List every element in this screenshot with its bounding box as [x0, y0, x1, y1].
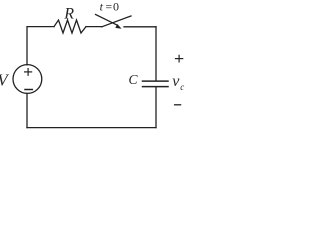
svg-text:V: V: [0, 70, 10, 89]
capacitor C bottom plate: [143, 86, 169, 88]
svg-text:c: c: [180, 82, 184, 92]
svg-text:v: v: [172, 73, 180, 90]
plus polarity mark of vC: [176, 55, 183, 62]
voltage source minus sign: [25, 89, 32, 91]
svg-text:0: 0: [113, 0, 119, 14]
svg-text:R: R: [63, 6, 74, 23]
wire resistor to switch: [86, 26, 102, 28]
svg-text:=: =: [105, 0, 112, 14]
switch arrowhead: [115, 24, 121, 29]
switch closing arrow line: [96, 15, 118, 26]
resistor R zigzag: [54, 20, 86, 33]
wire right vertical (corner to capacitor top plate): [155, 27, 157, 81]
capacitor C top plate: [143, 80, 169, 82]
minus polarity mark of vC: [175, 104, 181, 106]
wire capacitor bottom to bottom-right corner: [155, 87, 157, 127]
wire bottom: [27, 127, 156, 129]
switch blade (open, tilted up-right): [102, 16, 131, 27]
wire top-left (top of source to resistor): [27, 27, 54, 65]
svg-text:C: C: [129, 72, 139, 87]
svg-text:t: t: [100, 0, 104, 14]
wire switch to top-right corner: [124, 26, 156, 28]
voltage source plus sign: [25, 69, 32, 76]
wire bottom-left (corner up to source bottom): [26, 93, 28, 127]
voltage source V circle: [13, 65, 42, 94]
